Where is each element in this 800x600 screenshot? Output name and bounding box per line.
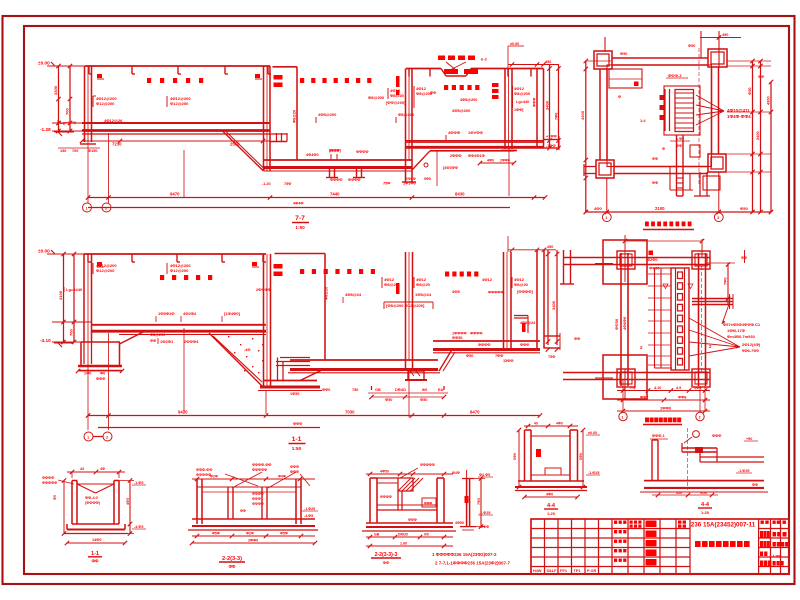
svg-text:-1.20: -1.20: [262, 182, 271, 186]
svg-text:+50: +50: [746, 437, 752, 441]
svg-text:1:20: 1:20: [701, 510, 710, 515]
svg-text:ΦΦΦ: ΦΦΦ: [533, 98, 537, 107]
svg-text:±0.00: ±0.00: [38, 249, 50, 254]
svg-text:Φ4.Φ5: Φ4.Φ5: [479, 473, 490, 477]
svg-text:4Φ8@200: 4Φ8@200: [460, 98, 477, 102]
section 7-7: sump slope: [222, 131, 264, 172]
plan 1: axis bubbles: [606, 178, 608, 213]
section 7-7: under-channel stub 2: [356, 169, 358, 178]
svg-text:4ΦΦΦ: 4ΦΦΦ: [448, 130, 461, 135]
svg-text:8470: 8470: [470, 410, 480, 415]
plan 2: corner block TL: [617, 251, 635, 269]
detail 6: bottom slab: [644, 480, 764, 482]
plan 1: corner column BR: [708, 154, 726, 172]
plan 1: bottom wall: [614, 166, 708, 168]
detail 1: U channel walls: [71, 481, 73, 525]
svg-text:2ΦΦ0: 2ΦΦ0: [248, 539, 258, 543]
svg-text:Φ5Φ: Φ5Φ: [280, 532, 288, 536]
title block: col8 top texts: [630, 521, 633, 524]
section 7-7: right tank sub-channel slab: [430, 150, 514, 152]
svg-text:-1.Φ25: -1.Φ25: [738, 469, 749, 473]
plan 2: inner sump lines: [654, 268, 656, 368]
plan 2: corner block TR: [692, 251, 710, 269]
svg-text:4Φ6Φ0: 4Φ6Φ0: [622, 316, 627, 330]
svg-text:2-2(3-3)-3: 2-2(3-3)-3: [375, 552, 398, 558]
svg-text:FP1: FP1: [560, 569, 567, 573]
section 7-7: left wall: [84, 66, 86, 142]
svg-text:ΦΦ: ΦΦ: [652, 157, 658, 161]
plan 1: trench outline: [664, 86, 700, 135]
svg-text:Φ0: Φ0: [53, 495, 57, 500]
svg-text:GB: GB: [374, 533, 380, 537]
svg-text:Lg=440: Lg=440: [516, 100, 529, 104]
svg-text:ΦΦΦΦ: ΦΦΦΦ: [470, 332, 482, 336]
plan 1: right outside dim chains: [752, 61, 754, 212]
svg-text:2ΦΦΦ: 2ΦΦΦ: [450, 154, 461, 158]
svg-text:4Φ2Φ4: 4Φ2Φ4: [183, 311, 197, 316]
svg-text:1Φ8@24: 1Φ8@24: [415, 292, 432, 297]
svg-text:1ΦΦ0: 1ΦΦ0: [660, 406, 672, 411]
detail 1: bottom dim: [67, 542, 125, 544]
svg-text:7030: 7030: [345, 410, 355, 415]
svg-text:ΦΦΦ: ΦΦΦ: [290, 465, 299, 469]
plan 2: bottom dim rows: [617, 390, 710, 392]
svg-text:-ΦΦΦ: -ΦΦΦ: [479, 525, 489, 529]
svg-text:DRUD: DRUD: [395, 388, 406, 392]
svg-text:Φ8@200: Φ8@200: [514, 91, 531, 96]
svg-text:ΦΦ: ΦΦ: [752, 483, 758, 487]
svg-text:4Φ0: 4Φ0: [126, 498, 130, 505]
svg-text:ΦΦ: ΦΦ: [758, 75, 764, 79]
detail 4: wall section: [466, 479, 468, 527]
section 1-1: right ledge: [544, 335, 560, 337]
svg-text:ΦΦΦ: ΦΦΦ: [96, 377, 105, 381]
section 7-7: ledge step: [276, 133, 278, 142]
plan 1: trench centerline: [698, 48, 700, 185]
svg-text:1-1: 1-1: [292, 436, 302, 443]
svg-text:±0.00: ±0.00: [510, 42, 519, 46]
svg-text:7Φ0: 7Φ0: [477, 498, 481, 505]
svg-text:1ΦΦΦΦ: 1ΦΦΦΦ: [452, 332, 467, 336]
svg-text:4.10: 4.10: [654, 386, 661, 390]
plan 1: inner face rect: [607, 65, 712, 167]
title block: outer rect: [531, 519, 789, 574]
svg-text:Φ12@200: Φ12@200: [170, 268, 189, 273]
detail 4: bottom marks: [460, 526, 476, 528]
svg-text:1: 1: [605, 216, 607, 220]
plan 1: caption: [645, 222, 649, 227]
svg-text:Φ57±Φ5Φ4ΦΦΦ.C1: Φ57±Φ5Φ4ΦΦΦ.C1: [723, 322, 761, 327]
svg-text:Φ2Φ0: Φ2Φ0: [647, 258, 657, 262]
section 7-7: bottom dimension line: [88, 197, 545, 199]
section 7-7: right dimension chain: [549, 65, 551, 149]
plan 1: top extension lines: [604, 37, 606, 52]
svg-text:ΦΦΦΦ: ΦΦΦΦ: [356, 150, 368, 154]
section 7-7: channel floor slab: [264, 159, 412, 161]
section 7-7: channel label: [300, 78, 304, 83]
section 1-1: side pit structure: [280, 357, 310, 359]
svg-text:ΦΦ-4.0: ΦΦ-4.0: [85, 496, 98, 500]
svg-text:9470: 9470: [170, 192, 180, 197]
svg-text:Lg=4440: Lg=4440: [60, 120, 77, 125]
svg-text:15ΦΦ: 15ΦΦ: [503, 359, 513, 363]
section 1-1: channel label: [300, 269, 304, 274]
svg-text:ΦΦ: ΦΦ: [652, 181, 658, 185]
svg-text:Φ50: Φ50: [688, 44, 695, 48]
plan 1: left outside dim chain: [585, 61, 587, 212]
svg-text:2ΦΦ0: 2ΦΦ0: [500, 159, 510, 163]
svg-text:4Φ8@200: 4Φ8@200: [452, 108, 471, 113]
plan 2: left wall: [620, 253, 622, 386]
svg-text:ΦΦ: ΦΦ: [741, 256, 747, 260]
svg-text:7.4: 7.4: [630, 386, 636, 390]
plan 1: trench stair hatch: [675, 90, 694, 132]
plan 1: inner dim small: [670, 140, 690, 142]
section 7-7: left dimension chain: [58, 66, 60, 131]
svg-text:9Φ0: 9Φ0: [424, 177, 431, 181]
svg-text:±0.00: ±0.00: [588, 431, 597, 435]
svg-text:2 7-7,1-1ΦΦΦΦ236 15A(23Φ2)007: 2 7-7,1-1ΦΦΦΦ236 15A(23Φ2)007-7: [435, 561, 510, 566]
svg-text:ΦΦΦ: ΦΦΦ: [290, 470, 299, 474]
svg-text:ΦΦΦΦ-ΦΦ: ΦΦΦΦ-ΦΦ: [252, 463, 271, 467]
plan 2: footing TL: [603, 240, 647, 284]
svg-text:4Φ0: 4Φ0: [594, 206, 603, 211]
svg-text:1: 1: [622, 416, 624, 420]
svg-text:5Φ0: 5Φ0: [579, 453, 583, 460]
svg-text:150: 150: [60, 149, 66, 153]
svg-text:ΦΦ50: ΦΦ50: [452, 336, 462, 340]
section 1-1: sump under wall A: [408, 371, 424, 380]
svg-text:4Φ0: 4Φ0: [546, 493, 553, 497]
svg-text:[4Φ2ΦΦ: [4Φ2ΦΦ: [443, 166, 458, 170]
svg-text:ΦΦΦΦΦ: ΦΦΦΦΦ: [42, 481, 57, 485]
detail 4: top tick note: [466, 470, 468, 479]
title block: number cell labels: [678, 521, 681, 524]
plan 1: left wall stub: [584, 166, 596, 168]
svg-text:1 ΦΦΦΦΦ236 15A(23Φ2)007-2: 1 ΦΦΦΦΦ236 15A(23Φ2)007-2: [432, 552, 497, 557]
svg-text:-1.Φ25: -1.Φ25: [304, 507, 315, 511]
plan 1: trench ladder left: [664, 89, 666, 131]
detail 1: right dim chain: [129, 481, 131, 534]
detail 5: top dim: [524, 425, 578, 427]
plan 1: corner column BL: [596, 160, 614, 178]
svg-text:75Φ: 75Φ: [548, 355, 555, 359]
svg-text:ΦΦ50: ΦΦ50: [614, 318, 619, 330]
svg-text:ΦΦΦ-3: ΦΦΦ-3: [668, 73, 682, 78]
svg-text:2ΦΦΦΦ: 2ΦΦΦΦ: [256, 287, 272, 292]
plan 2: caption: [645, 418, 649, 423]
section 7-7: right tank label: [444, 85, 448, 90]
detail 3: right wall: [436, 478, 438, 523]
plan 1: corner column TR: [708, 49, 727, 67]
svg-text:ΦΦ0: ΦΦ0: [322, 388, 330, 392]
svg-text:-4Φ: -4Φ: [244, 348, 251, 352]
title block: right col texts: [761, 521, 764, 524]
plan 2: top extension dims: [624, 235, 626, 282]
detail 4: dim vertical: [480, 479, 482, 527]
svg-text:7440: 7440: [330, 192, 340, 197]
section 7-7: under-slab dim: [82, 140, 270, 142]
section 7-7: wall side label stacks: [274, 75, 283, 80]
section 1-1: tank floor slab: [92, 324, 266, 326]
svg-text:4Φ12: 4Φ12: [482, 277, 493, 282]
svg-text:4300: 4300: [766, 95, 771, 105]
svg-text:Φ50: Φ50: [620, 52, 627, 56]
svg-text:1:4: 1:4: [640, 119, 646, 123]
section 7-7: right outside ledge: [544, 139, 560, 141]
detail 3: small box: [422, 498, 436, 507]
svg-text:ΦΦΦ: ΦΦΦ: [424, 502, 433, 506]
section 1-1: deep floor slab: [264, 380, 318, 382]
svg-text:ΦΦΦΦ: ΦΦΦΦ: [330, 178, 342, 182]
svg-text:ΦΦ4Φ1Φ: ΦΦ4Φ1Φ: [468, 154, 485, 158]
section 1-1: right outer wall: [536, 250, 538, 349]
plan 2: right dim chain: [727, 263, 729, 305]
svg-text:Φ50: Φ50: [420, 398, 427, 402]
detail 6: dashed centerline: [687, 428, 689, 490]
detail 6: left wall: [651, 440, 653, 481]
detail 1: top dim line: [67, 471, 125, 473]
detail 5: U channel: [524, 430, 526, 481]
svg-text:2: 2: [717, 216, 719, 220]
plan 2: corner block BR: [692, 369, 710, 387]
plan 2: rung leader lines: [648, 273, 671, 275]
title block: drawing title: [695, 541, 701, 547]
svg-text:4-4: 4-4: [547, 503, 556, 509]
section 7-7: left tank top line: [85, 65, 270, 67]
section 1-1: tank right wall: [263, 254, 265, 387]
section 1-1: step up diagonal left: [300, 370, 322, 381]
detail 2: top dim: [192, 478, 315, 480]
svg-text:75Φ: 75Φ: [383, 182, 390, 186]
svg-text:ΦΦΦ: ΦΦΦ: [712, 434, 721, 438]
svg-text:+1ΦΦ: +1ΦΦ: [546, 135, 557, 139]
svg-text:(ΦΦΦΦ): (ΦΦΦΦ): [85, 501, 101, 505]
detail 5: bottom slab: [518, 480, 584, 482]
section 7-7: right top dim line: [700, 37, 741, 39]
svg-text:P OR: P OR: [587, 569, 596, 573]
svg-text:Φ2Φ: Φ2Φ: [210, 475, 218, 479]
svg-text:2: 2: [699, 416, 701, 420]
svg-text:-4.Φ5: -4.Φ5: [304, 514, 313, 518]
svg-text:-1.28: -1.28: [40, 127, 51, 132]
svg-text:-1.Φ25: -1.Φ25: [588, 471, 599, 475]
svg-text:ΦΦΦ: ΦΦΦ: [293, 422, 302, 426]
plan 1: bottom channel rungs: [677, 177, 684, 179]
section 7-7: left tank label: [147, 78, 151, 83]
detail 2: bottom dim 2: [192, 542, 315, 544]
svg-text:9Φ6-7Φ0: 9Φ6-7Φ0: [742, 348, 760, 353]
svg-text:750: 750: [352, 388, 358, 392]
svg-text:1Φ2Φ1: 1Φ2Φ1: [160, 339, 174, 344]
svg-text:Φ8@20: Φ8@20: [325, 287, 329, 300]
svg-text:Φ: Φ: [618, 95, 621, 99]
svg-text:75Φ: 75Φ: [284, 182, 291, 186]
svg-text:1Φ0Φ: 1Φ0Φ: [329, 149, 339, 153]
title block: middle col row labels: [614, 521, 617, 524]
detail 3: inner verticals: [397, 491, 399, 510]
section 7-7: right tank floor slab: [406, 140, 544, 142]
svg-text:7230: 7230: [112, 142, 122, 147]
svg-text:Φ50: Φ50: [385, 398, 392, 402]
svg-text:[ΦΦ@200]: [ΦΦ@200]: [386, 100, 406, 105]
plan 1: bottom channel: [676, 135, 678, 196]
svg-text:DRUD: DRUD: [398, 533, 409, 537]
svg-text:ΦΦ: ΦΦ: [229, 564, 236, 569]
svg-text:H4W: H4W: [533, 569, 542, 573]
svg-text:4Φ8: 4Φ8: [452, 289, 461, 294]
svg-text:EA: EA: [438, 388, 444, 392]
svg-text:Φ8@20: Φ8@20: [293, 110, 297, 123]
svg-text:[1Φ4Φ0]: [1Φ4Φ0]: [224, 311, 241, 316]
section 1-1: left sump pit: [81, 341, 120, 343]
svg-text:9470: 9470: [178, 410, 188, 415]
svg-text:Φ4Φ: Φ4Φ: [452, 471, 460, 475]
svg-text:Φ50: Φ50: [466, 354, 473, 358]
svg-text:1.Φ2: 1.Φ2: [676, 137, 684, 141]
section 1-1: axis line with grid bubbles: [98, 427, 320, 429]
detail 6: leader circle: [693, 431, 700, 438]
svg-text:Φ8@20: Φ8@20: [514, 282, 529, 287]
svg-text:1:50: 1:50: [292, 446, 302, 451]
detail 3: bottom slab: [366, 522, 453, 524]
svg-text:Φ8@200: Φ8@200: [150, 333, 165, 337]
svg-text:1:Φ0: 1:Φ0: [773, 554, 783, 559]
svg-text:Φ2Φ: Φ2Φ: [246, 532, 254, 536]
svg-text:43: 43: [80, 467, 84, 471]
svg-text:ΦΦΦ-ΦΦ: ΦΦΦ-ΦΦ: [196, 468, 212, 472]
section 7-7: channel top edge: [273, 66, 298, 68]
svg-text:ΦΦ: ΦΦ: [150, 339, 156, 343]
plan 1: top wall: [612, 57, 708, 59]
svg-text:ΦΦ: ΦΦ: [92, 559, 99, 564]
plan 2: inner face rect: [628, 265, 699, 373]
detail 2: bottom slab: [192, 518, 315, 520]
svg-text:ΦΦΦΦ: ΦΦΦΦ: [348, 178, 360, 182]
plan 1: BR substructure: [699, 172, 701, 196]
section 1-1: left wall: [83, 254, 85, 342]
svg-text:450: 450: [545, 60, 551, 64]
title block: col9 filled blocks: [646, 521, 657, 528]
svg-text:Φ150: Φ150: [88, 149, 97, 153]
plan 2: dashed centerline: [701, 266, 703, 372]
section 7-7: right tank top line: [406, 68, 441, 70]
section 1-1: right pit label: [445, 272, 449, 277]
detail 3: top lines: [377, 477, 398, 479]
section 1-1: right middle wall: [503, 252, 505, 349]
svg-text:ΦΦΦ: ΦΦΦ: [252, 497, 261, 501]
title block: column lines: [544, 519, 546, 574]
svg-text:S&LF: S&LF: [547, 569, 558, 573]
detail 5: bottom dim: [525, 496, 578, 498]
section 1-1: inner level flags: [97, 262, 102, 266]
svg-text:Φ4Φ: Φ4Φ: [278, 475, 286, 479]
svg-text:Φ8@200: Φ8@200: [368, 95, 385, 100]
svg-text:450: 450: [676, 491, 682, 495]
detail 1: bottom slab: [72, 523, 119, 525]
svg-text:2Φ12(4Φ): 2Φ12(4Φ): [742, 342, 761, 347]
section 1-1: right dim chain: [547, 250, 549, 345]
svg-text:4Φ4Φ0: 4Φ4Φ0: [306, 153, 319, 157]
svg-text:5Φ0: 5Φ0: [513, 453, 517, 460]
svg-text:4Φ: 4Φ: [100, 467, 105, 471]
svg-text:2-2(3-3): 2-2(3-3): [222, 556, 242, 562]
detail 5: right dims: [582, 430, 584, 487]
svg-text:7-7: 7-7: [295, 215, 305, 222]
section 1-1: mid level slab: [290, 359, 438, 361]
svg-text:4Φ8@24: 4Φ8@24: [345, 292, 362, 297]
svg-text:3300: 3300: [53, 85, 58, 95]
svg-text:450: 450: [547, 245, 553, 249]
svg-text:Φ8@20: Φ8@20: [384, 282, 399, 287]
svg-text:TP1: TP1: [574, 569, 581, 573]
svg-text:4Φ12@26: 4Φ12@26: [104, 118, 123, 123]
svg-text:Φ50: Φ50: [700, 491, 707, 495]
svg-text:Φ50: Φ50: [747, 87, 752, 95]
section 7-7: axis line with grid bubbles: [88, 207, 510, 209]
svg-text:-4.Φ5: -4.Φ5: [134, 525, 143, 529]
svg-text:7Φ0: 7Φ0: [555, 113, 559, 120]
svg-text:3400: 3400: [551, 300, 556, 310]
svg-text:4-4: 4-4: [701, 502, 710, 508]
section 7-7: under-channel stub 1: [329, 169, 331, 178]
svg-text:ΦΦ2: ΦΦ2: [640, 396, 648, 400]
svg-text:8430: 8430: [455, 192, 465, 197]
section 7-7: grid extension x184: [183, 150, 185, 198]
svg-text:4Φ8@200: 4Φ8@200: [318, 112, 337, 117]
svg-text:Φ12@200: Φ12@200: [96, 101, 115, 106]
plan 2: footing BL: [603, 355, 647, 399]
svg-text:2550: 2550: [230, 142, 240, 147]
svg-text:[Φ8@200 Φ12@200]: [Φ8@200 Φ12@200]: [386, 303, 425, 308]
svg-text:700: 700: [69, 329, 74, 336]
svg-text:1ΦVΦΦ: 1ΦVΦΦ: [468, 130, 484, 135]
svg-text:ΦΦΦΦ: ΦΦΦΦ: [252, 492, 264, 496]
svg-text:4Φ8@24: 4Φ8@24: [520, 321, 536, 325]
section 1-1: left sump slope: [120, 331, 147, 345]
svg-text:±0.00: ±0.00: [38, 61, 50, 66]
svg-text:Φ5Φ: Φ5Φ: [212, 532, 220, 536]
svg-text:1ΦΦ[: 1ΦΦ[: [514, 108, 524, 112]
section 1-1: middle wall: [405, 252, 407, 371]
section 7-7: middle wall: [405, 69, 407, 183]
detail 2: bottom dims: [192, 535, 315, 537]
detail 1: funnel: [77, 483, 114, 485]
plan 1: inner ledge: [609, 69, 642, 88]
title block: row lines: [531, 528, 690, 530]
plan 2: right triple lines: [692, 298, 733, 300]
plan 2: corner block BL: [617, 369, 635, 387]
section 7-7: top opening notes: [438, 56, 445, 61]
detail 3: dim row: [366, 536, 453, 538]
svg-text:ΦΦΦΦ: ΦΦΦΦ: [252, 502, 264, 506]
svg-text:Φ8@200: Φ8@200: [398, 112, 415, 117]
svg-text:1ΦM-17Φ: 1ΦM-17Φ: [727, 328, 746, 333]
svg-text:40: 40: [534, 422, 538, 426]
svg-text:ΦΦ: ΦΦ: [383, 560, 390, 565]
svg-text:-1.Φ5: -1.Φ5: [134, 481, 143, 485]
detail 2: callout leaders: [225, 474, 258, 486]
plan 1: right wall: [711, 67, 713, 154]
svg-text:ΦΦΦΦ: ΦΦΦΦ: [42, 476, 54, 480]
section 1-1: mid pit outline: [371, 386, 373, 390]
plan 1: left wall: [599, 69, 601, 160]
svg-text:GΦ5Φ: GΦ5Φ: [405, 177, 416, 181]
svg-text:ΦΦΦΦ: ΦΦΦΦ: [380, 495, 392, 499]
detail 6: bottom dims: [652, 494, 718, 496]
svg-text:14Φ0: 14Φ0: [92, 538, 101, 542]
svg-text:4Φ4Φ: 4Φ4Φ: [293, 202, 303, 206]
